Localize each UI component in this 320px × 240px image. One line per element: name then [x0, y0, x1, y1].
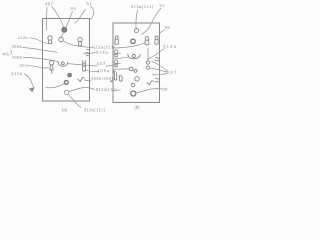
- teardrop R5: [155, 36, 158, 44]
- leader 514a mid right leg: [113, 53, 120, 54]
- label 407 right: [167, 71, 177, 74]
- label 513a(112) bottom: [84, 108, 105, 112]
- bulb outline L4: [78, 37, 82, 46]
- leader 99 right corner: [160, 30, 165, 34]
- label 405a: [12, 45, 22, 48]
- bowl L7: [58, 62, 68, 67]
- edge hooks R11: [114, 73, 122, 82]
- leader 407 right b: [150, 68, 167, 72]
- box (b) outline: [113, 23, 160, 102]
- leader 99 left: [66, 12, 73, 28]
- edge bulb R6: [114, 50, 118, 57]
- label 408b(408): [91, 77, 113, 81]
- label 99 left: [71, 7, 76, 10]
- caption (b): [135, 106, 140, 110]
- gray annulus R2: [131, 39, 135, 43]
- label 401: [20, 64, 27, 67]
- label 513a(111) top-right: [131, 5, 153, 9]
- tail L11 to bottom label: [68, 94, 81, 107]
- teardrop R4: [145, 37, 149, 45]
- leader 401: [28, 65, 49, 68]
- label 405 brace: [2, 53, 9, 56]
- leader 407 right a: [152, 61, 168, 71]
- leader 408a left leg: [86, 70, 100, 72]
- leader 513a(112) left leg: [69, 88, 94, 92]
- leader 408a right leg: [113, 71, 115, 73]
- bird R15: [147, 81, 153, 85]
- leader 407 to dark bulb: [52, 7, 64, 27]
- leader 513a(112) right leg: [114, 89, 121, 92]
- leader 405a: [23, 48, 58, 53]
- bowl circle R8: [132, 54, 135, 57]
- label 98 right: [163, 88, 167, 91]
- cluster square R10: [130, 67, 133, 70]
- leader 513a(211) right leg: [113, 43, 145, 49]
- leader 405b: [24, 58, 58, 62]
- right edge hatch L5: [86, 49, 90, 56]
- leader 407 mid left leg: [68, 64, 97, 66]
- small circle R9b: [146, 66, 149, 69]
- leader across box b y69: [113, 68, 129, 70]
- label 51 right: [160, 4, 165, 7]
- leader 408b right leg: [110, 80, 112, 83]
- leader 513a(111): [136, 10, 138, 28]
- leader 412b: [30, 38, 48, 44]
- bird L12: [78, 77, 85, 81]
- label 408a: [97, 69, 109, 72]
- arrowhead 412a: [29, 87, 35, 92]
- tall component L8: [83, 61, 86, 72]
- leader 407 right c: [153, 74, 168, 75]
- leader 51 fork hook: [75, 10, 86, 24]
- leader 407 vertical: [46, 7, 48, 30]
- label 514a right: [163, 45, 176, 48]
- leader 407 mid right leg: [106, 63, 121, 66]
- gray annulus R14: [131, 91, 136, 96]
- teardrop R1: [115, 36, 119, 45]
- dark square L9: [68, 73, 71, 76]
- bulb outline L1: [48, 36, 52, 44]
- leader 514a mid left leg: [84, 53, 96, 54]
- bowl circle L7: [61, 62, 64, 65]
- bowl R8: [128, 54, 140, 59]
- dark bulb L2: [62, 27, 67, 32]
- hollow circle R3: [134, 28, 138, 32]
- leader 412a: [25, 74, 34, 88]
- label 405b: [12, 56, 22, 59]
- box (a) outline: [43, 19, 90, 102]
- leader across box b y58: [113, 57, 128, 59]
- bulb outline L6: [49, 61, 53, 74]
- cluster circle R10: [134, 69, 137, 72]
- leader 98: [136, 89, 162, 93]
- small circle R9a: [146, 61, 149, 64]
- label 51 left: [87, 2, 92, 5]
- leader 51 left: [90, 6, 94, 19]
- label 412b: [18, 36, 28, 39]
- leader 514a right: [148, 49, 165, 60]
- label 407 top-left: [45, 2, 53, 5]
- label 99 right corner: [165, 26, 169, 29]
- label 407 mid: [97, 62, 106, 65]
- circle R12: [135, 77, 139, 81]
- leader 408b left leg: [85, 80, 92, 81]
- leader 51 right: [142, 8, 162, 35]
- gray circle L11: [64, 90, 69, 95]
- circle R13: [131, 83, 135, 87]
- caption (a): [62, 108, 67, 112]
- hollow circle L3: [59, 37, 63, 41]
- arrowhead 408a: [113, 71, 116, 73]
- label 513a(211): [93, 46, 115, 50]
- leader from ring left: [46, 83, 64, 87]
- arrowhead 408b: [111, 80, 114, 82]
- right edge hatch R16: [155, 58, 159, 83]
- label 514a mid: [96, 51, 108, 54]
- edge bulb R7: [114, 60, 118, 67]
- label 513a(112) mid: [96, 88, 116, 92]
- dark ring L10: [64, 81, 68, 85]
- label 412a: [11, 72, 22, 75]
- vertical leader into R9: [147, 49, 149, 61]
- tail L3 to 513a(211): [63, 41, 93, 48]
- stem L2 to circle: [62, 32, 64, 37]
